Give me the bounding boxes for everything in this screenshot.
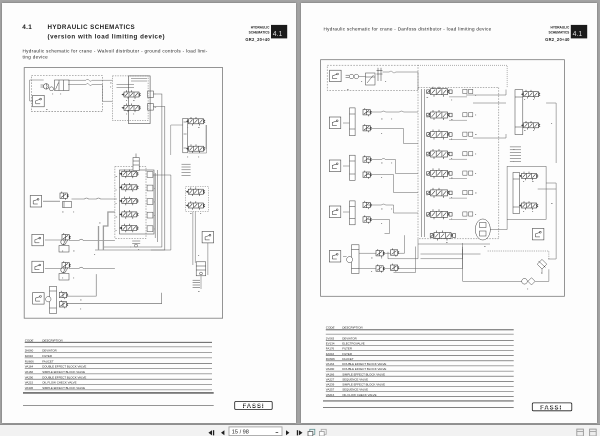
svg-text:SCHEMATICS: SCHEMATICS bbox=[548, 30, 569, 34]
wires left clusters to distributor bbox=[343, 111, 463, 269]
control station icon boxes bbox=[329, 117, 341, 129]
svg-text:RU606: RU606 bbox=[25, 359, 34, 363]
stabilizer icon box bbox=[532, 228, 544, 240]
svg-text:FA616: FA616 bbox=[326, 352, 335, 356]
tank line bottom bbox=[463, 243, 549, 281]
nav last-page button bbox=[297, 430, 298, 435]
svg-text:VA227: VA227 bbox=[326, 377, 335, 381]
check valve VA215 bbox=[193, 262, 206, 288]
suction/delivery wires to distributor bbox=[30, 79, 113, 101]
svg-text:DEVIATOR: DEVIATOR bbox=[342, 336, 357, 340]
hand valve cluster B bbox=[61, 239, 66, 244]
distributor section 3 bbox=[119, 197, 138, 206]
page number combo bbox=[229, 427, 282, 436]
book-view icon bbox=[321, 429, 326, 434]
riser wires right of block1 bbox=[95, 94, 165, 250]
delivery wire with break bbox=[359, 65, 508, 90]
distributor section 1 bbox=[119, 170, 138, 179]
svg-text:DESCRIPTION: DESCRIPTION bbox=[42, 338, 63, 342]
schematic frame bbox=[321, 60, 565, 297]
hand valve cluster C bbox=[61, 267, 66, 272]
svg-text:OIL FLOW CHECK VALVE: OIL FLOW CHECK VALVE bbox=[342, 393, 376, 397]
hand pump icon box bbox=[33, 95, 45, 107]
svg-text:HYDRAULIC: HYDRAULIC bbox=[551, 26, 570, 30]
port terminal ticks bbox=[510, 147, 521, 162]
rotation actuator riser bbox=[46, 286, 57, 313]
gauge + filter FA616 bbox=[522, 278, 535, 285]
svg-text:VA239: VA239 bbox=[326, 383, 335, 387]
black section tab bbox=[271, 25, 287, 39]
distributor block 1 body bbox=[129, 76, 151, 124]
distributor section 6 bbox=[427, 188, 452, 198]
svg-text:DOUBLE EFFECT BLOCK VALVE: DOUBLE EFFECT BLOCK VALVE bbox=[342, 362, 386, 366]
schematic frame bbox=[24, 68, 222, 319]
valve VA164 upper bbox=[186, 117, 205, 126]
svg-text:SEQUENCE VALVE: SEQUENCE VALVE bbox=[342, 388, 368, 392]
winch icon box bbox=[202, 231, 214, 243]
svg-text:FASSI: FASSI bbox=[243, 404, 265, 410]
svg-text:FILTER: FILTER bbox=[42, 354, 52, 358]
svg-text:ting device: ting device bbox=[23, 54, 49, 59]
inlet section valve bbox=[430, 231, 455, 241]
svg-text:VA290: VA290 bbox=[326, 367, 335, 371]
svg-text:VA166: VA166 bbox=[326, 372, 335, 376]
slewing block valves bbox=[376, 249, 384, 257]
main distributor body bbox=[120, 170, 155, 234]
main distributor dashed enclosure bbox=[418, 87, 499, 239]
svg-text:DESCRIPTION: DESCRIPTION bbox=[342, 325, 363, 329]
svg-text:15 / 98: 15 / 98 bbox=[232, 430, 249, 436]
svg-text:ELECTROVALVE: ELECTROVALVE bbox=[342, 342, 365, 346]
svg-text:FA616: FA616 bbox=[25, 354, 34, 358]
svg-text:VA616: VA616 bbox=[326, 393, 335, 397]
svg-text:VA290: VA290 bbox=[25, 375, 34, 379]
footer thick rule bbox=[23, 392, 214, 394]
svg-text:Hydraulic schematic for crane: Hydraulic schematic for crane - Danfoss … bbox=[324, 26, 492, 31]
svg-text:CODE: CODE bbox=[326, 325, 336, 329]
svg-text:SEQUENCE VALVE: SEQUENCE VALVE bbox=[342, 377, 368, 381]
stabilizer valve group right-top bbox=[183, 118, 188, 153]
svg-text:DEVIATOR: DEVIATOR bbox=[42, 349, 57, 353]
distributor section 4 bbox=[119, 210, 138, 219]
return bundle bbox=[394, 244, 491, 273]
svg-text:Hydraulic schematic for crane: Hydraulic schematic for crane - Walvoil … bbox=[23, 48, 208, 53]
svg-text:VA257: VA257 bbox=[326, 388, 335, 392]
work ports block1 bbox=[148, 91, 154, 110]
black section tab bbox=[571, 25, 587, 39]
svg-text:VA166: VA166 bbox=[25, 370, 34, 374]
svg-text:DOUBLE EFFECT BLOCK VALVE: DOUBLE EFFECT BLOCK VALVE bbox=[42, 365, 86, 369]
pump P1 bbox=[44, 84, 49, 89]
svg-text:2H060: 2H060 bbox=[25, 349, 34, 353]
distributor section 4 bbox=[427, 149, 452, 159]
nav next button bbox=[286, 430, 289, 435]
pilot control cluster 1 bbox=[350, 108, 356, 136]
distributor manifold rails bbox=[422, 89, 425, 237]
svg-text:HYDRAULIC SCHEMATICS: HYDRAULIC SCHEMATICS bbox=[48, 24, 136, 31]
svg-text:DOUBLE EFFECT BLOCK VALVE: DOUBLE EFFECT BLOCK VALVE bbox=[342, 367, 386, 371]
inlet element bbox=[133, 154, 139, 171]
rotation valve group right-mid bbox=[186, 187, 205, 196]
valve VA164 lower bbox=[186, 144, 205, 153]
svg-text:FILTER: FILTER bbox=[342, 352, 352, 356]
nav first-page button bbox=[208, 430, 212, 435]
distributor section 5 bbox=[427, 168, 452, 178]
valve V2 bbox=[121, 104, 140, 113]
pilot lines group1 bbox=[171, 125, 207, 155]
pump valve body bbox=[55, 80, 70, 91]
lift cylinder valve group right-top bbox=[515, 90, 523, 135]
svg-text:EV134: EV134 bbox=[326, 342, 335, 346]
gray bus staircase bbox=[99, 212, 115, 250]
port labels bbox=[46, 83, 201, 310]
svg-text:VA164: VA164 bbox=[25, 365, 34, 369]
svg-text:VA336: VA336 bbox=[25, 386, 34, 390]
hand valve cluster A bbox=[60, 192, 68, 200]
distributor section 3 bbox=[427, 130, 452, 140]
distributor section 7 bbox=[427, 209, 452, 219]
return/routing wires bbox=[388, 90, 556, 260]
svg-text:SIMPLE EFFECT BLOCK VALVE: SIMPLE EFFECT BLOCK VALVE bbox=[342, 383, 385, 387]
svg-text:VA215: VA215 bbox=[25, 381, 34, 385]
svg-text:FA176: FA176 bbox=[326, 347, 335, 351]
pilot control cluster 3 bbox=[350, 201, 356, 225]
svg-text:4.1: 4.1 bbox=[22, 24, 32, 31]
svg-text:OIL FLOW CHECK VALVE: OIL FLOW CHECK VALVE bbox=[42, 381, 76, 385]
distributor section 2 bbox=[427, 110, 452, 120]
pump unit dashed enclosure bbox=[31, 76, 102, 112]
svg-text:SIMPLE EFFECT BLOCK VALVE: SIMPLE EFFECT BLOCK VALVE bbox=[42, 386, 85, 390]
footer rules bbox=[323, 400, 514, 402]
svg-text:HYDRAULIC: HYDRAULIC bbox=[251, 26, 270, 30]
distributor block 1 (dashed) bbox=[112, 76, 148, 121]
slewing actuator bbox=[347, 245, 359, 274]
distributor section 5 bbox=[119, 224, 138, 233]
svg-text:(version with load limiting de: (version with load limiting device) bbox=[48, 33, 166, 40]
svg-text:FAUCET: FAUCET bbox=[342, 357, 354, 361]
tank return lines bbox=[151, 175, 208, 289]
control station icon boxes left column bbox=[30, 196, 42, 208]
footer thin rule bbox=[23, 404, 214, 406]
svg-text:GR2_20÷40: GR2_20÷40 bbox=[545, 37, 570, 42]
svg-text:SIMPLE EFFECT BLOCK VALVE: SIMPLE EFFECT BLOCK VALVE bbox=[342, 372, 385, 376]
PTO icon box bbox=[330, 70, 342, 82]
power unit dashed enclosure bbox=[327, 65, 418, 90]
stack base plate bbox=[132, 241, 140, 247]
port terminal ticks bbox=[182, 164, 191, 175]
window layout icons right bbox=[577, 429, 584, 436]
svg-text:FAUCET: FAUCET bbox=[42, 359, 54, 363]
svg-text:CODE: CODE bbox=[25, 338, 35, 342]
distributor section 1 bbox=[427, 87, 452, 97]
articulation valve group box bbox=[507, 166, 546, 219]
svg-text:DOUBLE EFFECT BLOCK VALVE: DOUBLE EFFECT BLOCK VALVE bbox=[42, 375, 86, 379]
svg-text:FASSI: FASSI bbox=[540, 405, 562, 411]
svg-text:4.1: 4.1 bbox=[573, 31, 583, 38]
flow divider oval bbox=[475, 219, 490, 240]
filter FA176 diamond bbox=[537, 259, 547, 269]
distributor section 2 bbox=[119, 183, 138, 192]
svg-text:FILTER: FILTER bbox=[342, 347, 352, 351]
svg-text:RU606: RU606 bbox=[326, 357, 335, 361]
dashed pilot line bottom bbox=[488, 251, 549, 259]
valve V1 bbox=[121, 90, 140, 99]
svg-text:VA164: VA164 bbox=[326, 362, 335, 366]
nav prev button bbox=[221, 430, 224, 435]
svg-text:2V063: 2V063 bbox=[326, 336, 335, 340]
main distributor stack dashed enclosure bbox=[115, 167, 146, 239]
svg-text:GR2_20÷40: GR2_20÷40 bbox=[245, 37, 270, 42]
FASSI logo bbox=[532, 403, 572, 411]
svg-text:SIMPLE EFFECT BLOCK VALVE: SIMPLE EFFECT BLOCK VALVE bbox=[42, 370, 85, 374]
block valves on actuator bbox=[59, 291, 67, 299]
pilot control cluster 2 bbox=[350, 155, 356, 180]
port labels bbox=[347, 81, 553, 289]
connection wires left column bbox=[43, 198, 162, 304]
FASSI logo bbox=[235, 402, 273, 410]
facing-pages icon (active) bbox=[310, 429, 315, 434]
svg-text:4.1: 4.1 bbox=[273, 31, 283, 38]
motor-pump group bbox=[346, 68, 383, 85]
svg-text:SCHEMATICS: SCHEMATICS bbox=[249, 30, 270, 34]
